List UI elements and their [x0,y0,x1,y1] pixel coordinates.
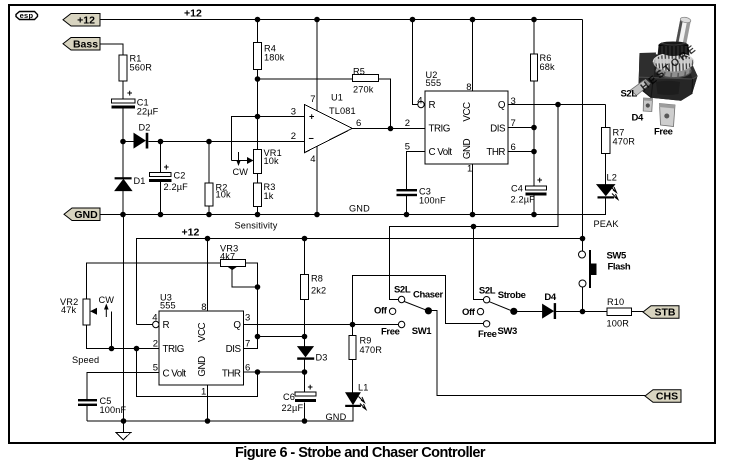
svg-text:C2: C2 [174,171,186,181]
svg-text:TRIG: TRIG [429,124,450,135]
wire R8 top [304,239,306,275]
wire +12 bus [100,19,583,21]
svg-text:100nF: 100nF [100,405,127,415]
svg-text:68k: 68k [540,62,556,72]
svg-text:+12: +12 [184,8,202,20]
svg-text:THR: THR [222,368,241,379]
wire U1 pin7 supply [316,20,318,112]
svg-text:180k: 180k [264,52,285,62]
wire SW5 top [582,239,584,252]
switch SW1 chaser [374,285,444,338]
switch knurled nut [653,53,694,72]
wire C5 bottom to bus [86,406,88,421]
svg-text:5: 5 [405,142,410,153]
wire R6 top [533,20,535,55]
LED L2 [597,173,618,200]
svg-text:47k: 47k [61,305,77,315]
label GND bus [349,204,370,214]
svg-text:R8: R8 [311,273,323,283]
svg-text:CHS: CHS [656,391,678,403]
junction R8 D3 node [302,334,308,340]
wire R5 right to output [379,79,391,129]
svg-text:GND: GND [349,204,370,214]
toggle switch photo [621,16,700,137]
svg-text:Free: Free [478,329,497,340]
junction ground symbol at bottom bus [121,418,127,424]
svg-text:R: R [163,320,170,331]
junction U1 output [388,126,394,132]
junction C4 at GND bus [531,212,537,218]
junction C3 at GND bus [404,212,410,218]
svg-text:7: 7 [511,118,516,129]
label D4 photo [632,113,644,124]
junction U2 pin1 at GND bus [470,212,476,218]
wire +12 lower row [137,239,583,325]
label Sensitivity [235,221,278,231]
wire C6 bottom to bus [304,403,306,422]
svg-text:Free: Free [381,326,400,337]
tag CHS [645,390,681,403]
svg-text:TRIG: TRIG [163,344,184,355]
svg-text:GND: GND [462,138,473,159]
wire VR2 top row [87,263,221,299]
svg-text:470R: 470R [613,136,636,146]
resistor R10 [607,297,632,328]
resistor R2 [205,182,231,206]
svg-text:6: 6 [356,118,361,129]
wire U2 pin1 GND [472,164,474,215]
junction TRIG tie [134,346,140,352]
svg-text:S2L: S2L [621,88,638,99]
svg-text:4k7: 4k7 [220,251,235,261]
wire D4 to R10 [556,311,607,313]
wire U3 pin4 stub [137,324,153,326]
capacitor C3 [397,186,447,205]
junction U2 Q [555,102,561,108]
tag +12 [63,14,100,27]
svg-text:4: 4 [152,312,157,323]
junction U2 pin4 at +12 bus [410,17,416,23]
svg-text:CW: CW [99,295,115,305]
wire R3 bottom to GND [257,207,259,215]
svg-text:Strobe: Strobe [498,290,526,301]
svg-text:+: + [309,111,315,121]
wire U2 DIS [508,127,534,129]
junction R8 at +12 row [302,236,308,242]
svg-text:Q: Q [498,100,506,111]
switch SW3 strobe [462,286,526,340]
wire VR3 wiper arm [232,269,258,288]
resistor R4 [254,43,285,70]
svg-text:R10: R10 [607,297,624,307]
wire SW1 common to CHS [431,311,645,396]
op-amp U1 [291,93,362,166]
wire U2 pin4 supply [413,20,418,105]
wire R2 top [208,142,210,184]
junction U2 THR [531,149,537,155]
watermark HESTORE [638,42,700,94]
svg-text:4: 4 [310,154,315,165]
svg-text:555: 555 [426,78,442,88]
capacitor C2 [149,162,188,192]
svg-text:Speed: Speed [72,355,99,365]
wire D1 bottom to GND bus [122,191,124,215]
svg-text:+: + [127,88,133,98]
wire R4 top [257,20,259,43]
wire D2 node to D2 anode [123,141,134,143]
switch terminal left [631,79,651,96]
wire U3 pin1 GND [207,385,209,421]
junction R3 at GND bus [255,212,261,218]
wire detour branch to SW3 [474,227,484,300]
potentiometer VR1 [247,148,282,173]
svg-text:THR: THR [486,147,505,158]
svg-text:C4: C4 [511,183,523,193]
svg-text:1: 1 [467,164,472,175]
wire GND bus [100,199,606,215]
wire D3 to C6 [304,360,306,393]
junction U1 pin3 [255,114,261,120]
svg-text:3: 3 [245,313,250,324]
svg-text:555: 555 [160,301,176,311]
wire VR1 wiper [232,160,252,162]
junction VR2 wiper at TRIG row [109,346,115,352]
resistor R3 [254,182,276,207]
diode D4 [543,292,557,319]
svg-text:S2L: S2L [394,285,411,296]
svg-text:Q: Q [233,320,241,331]
wire U1 output to U2 TRIG [353,128,426,130]
switch lever [675,16,691,48]
svg-text:DIS: DIS [490,124,506,135]
svg-text:6: 6 [245,363,250,374]
LED L1 [345,382,368,409]
capacitor C1 [112,88,159,116]
junction C2 at GND bus [158,212,164,218]
resistor R7 [602,127,636,153]
svg-text:D1: D1 [134,176,146,186]
switch terminal middle [643,98,652,112]
svg-text:6: 6 [511,142,516,153]
svg-text:Bass: Bass [73,38,98,50]
wire VR2 wiper down [111,312,113,349]
junction U2 pin8 at +12 bus [470,17,476,23]
svg-text:2: 2 [153,338,158,349]
svg-text:C6: C6 [283,392,295,402]
svg-text:10k: 10k [264,156,280,166]
svg-text:470R: 470R [360,345,383,355]
diode D3 [297,347,327,363]
svg-text:C Volt: C Volt [429,147,453,158]
resistor R5 [353,67,379,95]
wire DIS row to D3 column [258,336,306,338]
label S2L photo [621,88,638,99]
svg-text:+12: +12 [182,226,200,238]
svg-text:−: − [309,134,315,144]
svg-text:R5: R5 [353,67,365,77]
wire bottom bus [87,407,353,421]
svg-text:2: 2 [291,131,296,142]
junction U3 pin8 at +12 row [205,236,211,242]
switch terminal right [659,104,675,127]
wire pin3 row [232,117,305,161]
svg-text:1k: 1k [264,191,274,201]
CW arrow VR1 [233,152,249,177]
svg-text:2k2: 2k2 [311,285,326,295]
junction U1 pin7 at +12 bus [314,17,320,23]
wire VR3 right drop [246,263,258,337]
svg-text:SW3: SW3 [498,326,518,337]
potentiometer VR2 [60,297,97,325]
junction SW5 top at +12 row [580,236,586,242]
wire C4 bottom to GND [533,195,535,215]
svg-text:5: 5 [153,363,158,374]
svg-text:PEAK: PEAK [594,219,620,229]
svg-text:Off: Off [462,307,476,318]
svg-text:GND: GND [74,209,98,221]
wire U3 DIS stub [244,337,258,349]
svg-text:7: 7 [310,94,315,105]
diode D2 [134,122,151,148]
junction SW3 branch [471,224,477,230]
junction C2 top [158,139,164,145]
svg-text:7: 7 [245,339,250,350]
tag Bass [63,38,100,51]
svg-text:560R: 560R [130,62,153,72]
resistor R8 [301,273,327,299]
junction U2 DIS [531,125,537,131]
wire R9 to L1 [352,360,354,394]
junction U3 THR node [255,369,261,375]
resistor R6 [531,53,556,81]
junction R9 at Q row [350,322,356,328]
svg-text:3: 3 [511,96,516,107]
junction VR3 wiper [255,284,261,290]
svg-text:+: + [537,175,543,185]
label Speed [72,355,99,365]
svg-text:2.2µF: 2.2µF [511,195,536,205]
wire U2 VCC pin8 [472,20,474,92]
capacitor C6 [282,382,317,413]
svg-text:10k: 10k [216,189,232,199]
junction D3 C6 node [302,369,308,375]
wire U2 CVolt to C3 [407,152,426,190]
svg-text:+: + [308,382,314,392]
wire C2 bottom to GND bus [160,182,162,215]
svg-text:GND: GND [326,412,347,422]
svg-text:2.2µF: 2.2µF [164,182,189,192]
junction C6 at bottom bus [302,418,308,424]
wire R1 bottom to C1 [122,81,124,99]
svg-text:CW: CW [233,167,249,177]
switch body [639,53,698,101]
junction U1 pin4 at GND bus [314,212,320,218]
wire +12 right drop to SW5 node [582,20,584,239]
svg-text:C Volt: C Volt [163,368,187,379]
svg-text:STB: STB [655,307,676,319]
svg-text:VCC: VCC [197,322,208,342]
svg-text:Figure 6 - Strobe and Chaser C: Figure 6 - Strobe and Chaser Controller [235,445,486,461]
wire R8 bottom to D3 [304,300,306,347]
label PEAK [594,219,620,229]
svg-text:Flash: Flash [608,262,631,273]
junction R2 top [206,139,212,145]
push switch SW5 [579,250,631,288]
wire C1 bottom to D2 node [122,109,124,142]
svg-text:Free: Free [654,127,673,138]
svg-text:D4: D4 [632,113,644,124]
svg-text:SW5: SW5 [607,251,628,262]
junction D1 at GND bus [120,212,126,218]
junction R5 left [255,76,261,82]
trimpot VR3 [220,244,246,270]
wire R7 to L2 [605,154,607,185]
svg-text:100R: 100R [607,319,630,329]
wire VR1 to R3 [257,174,259,184]
junction R6 at +12 bus [531,17,537,23]
tag GND [64,208,100,221]
svg-text:VCC: VCC [462,102,473,122]
svg-text:D3: D3 [316,352,328,362]
wire TRIG THR tie [137,349,258,397]
wire U3 CVolt to C5 [87,373,159,400]
node envelope D2 anode [120,139,126,145]
IC U3 555 [152,293,250,398]
svg-text:4: 4 [417,95,422,106]
svg-text:8: 8 [201,302,206,313]
ESP logo [16,11,38,20]
label +12 top [184,8,202,20]
svg-text:R: R [429,100,436,111]
wire U3 Q row [244,324,399,326]
caption [235,445,486,461]
wire R9 top [352,325,354,336]
wire VR2 bottom to TRIG row [87,325,160,349]
svg-text:Off: Off [374,305,388,316]
wire C2 top [160,142,162,173]
wire Q loop to SW3 free [353,276,484,325]
resistor R1 [119,54,152,81]
switch bushing base over nut [659,46,689,56]
svg-text:1: 1 [201,387,206,398]
junction U3 pin1 at bottom bus [205,418,211,424]
svg-text:S2L: S2L [479,286,496,297]
wire D2 node down to D1 [122,142,124,178]
svg-text:22µF: 22µF [137,106,159,116]
switch bushing [658,42,690,57]
svg-text:Sensitivity: Sensitivity [235,221,278,231]
junction U3 DIS node [255,334,261,340]
svg-text:D4: D4 [544,292,556,303]
junction R4 at +12 bus [255,17,261,23]
wire R2 bottom to GND bus [208,206,210,215]
junction R2 at GND bus [206,212,212,218]
capacitor C4 [511,175,547,204]
svg-text:8: 8 [466,82,471,93]
label GND bottom [326,412,347,422]
wire R7 top [605,105,607,128]
wire SW3 common to D4 [517,311,543,313]
ground symbol [116,433,131,440]
svg-text:U1: U1 [331,93,343,103]
wire R10 to STB tag [632,311,644,313]
wire U2 Q output [508,104,606,106]
svg-text:D2: D2 [139,122,151,132]
svg-text:22µF: 22µF [282,403,304,413]
svg-text:DIS: DIS [226,344,242,355]
svg-text:100nF: 100nF [419,195,446,205]
switch lock ring [656,63,692,77]
resistor R9 [349,336,382,360]
wire C3 bottom to GND [406,195,408,215]
wire Q down detour to switches [390,105,559,300]
svg-text:Chaser: Chaser [413,290,444,301]
wire R5 left [258,78,353,80]
svg-text:GND: GND [197,356,208,377]
wire U3 VCC pin8 [207,239,209,312]
IC U2 555 [405,70,516,174]
wire U1 pin4 to GND [316,146,318,215]
junction SW5 bottom at STB row [580,309,586,315]
svg-text:3: 3 [291,106,296,117]
wire Bass to R1 [100,44,123,55]
tag STB [643,306,679,319]
svg-text:SW1: SW1 [412,326,433,337]
diode D1 [115,176,146,190]
svg-text:L1: L1 [358,382,369,392]
wire U2 THR [508,151,534,153]
label +12 lower [182,226,200,238]
wire R6 bottom through DIS THR to C4 [533,81,535,186]
wire envelope row D2 cathode to U1 pin2 [149,141,305,143]
wire R4 bottom to node column [257,70,259,150]
CW arrow VR2 [99,295,115,317]
wire SW5 bottom [582,287,584,312]
svg-text:esp: esp [20,11,34,20]
wire ground symbol drop [123,215,125,433]
svg-text:TL081: TL081 [329,106,356,116]
svg-text:+12: +12 [77,14,95,26]
svg-text:+: + [164,162,170,172]
svg-text:2: 2 [405,118,410,129]
wire U3 THR row [244,371,306,373]
svg-text:270k: 270k [353,85,374,95]
svg-text:L2: L2 [607,173,618,183]
capacitor C5 [78,396,127,415]
wire pin3 stub [257,116,259,118]
label Free photo [654,127,673,138]
